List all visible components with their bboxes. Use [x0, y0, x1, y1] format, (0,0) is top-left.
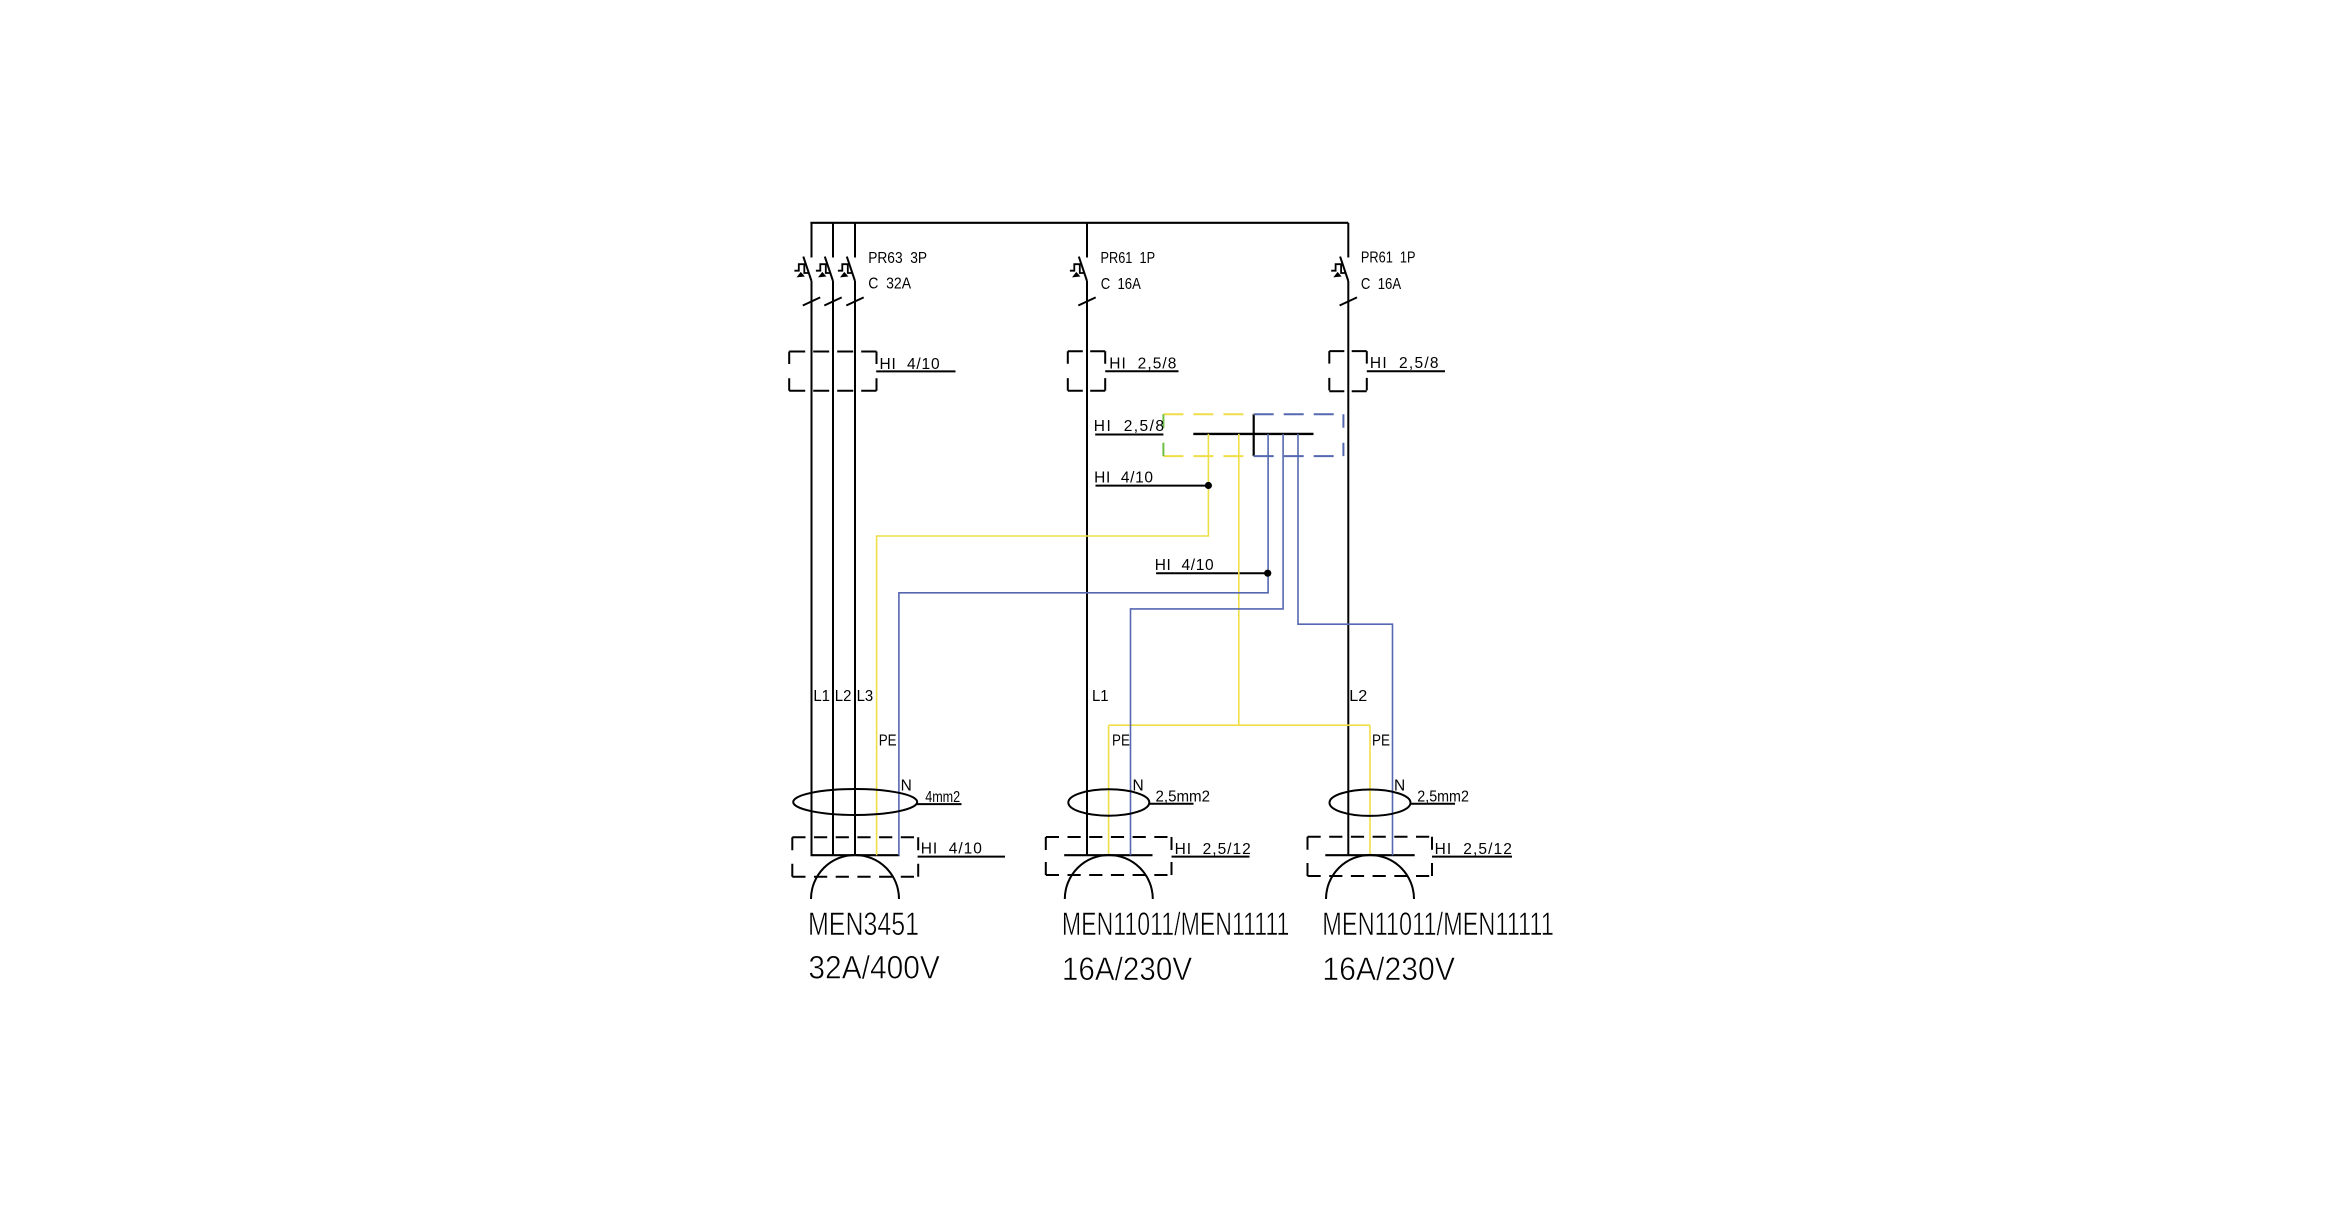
svg-text:HI 4/10: HI 4/10: [921, 841, 983, 858]
svg-text:HI 2,5/12: HI 2,5/12: [1435, 841, 1512, 858]
svg-text:2,5mm2: 2,5mm2: [1417, 789, 1469, 806]
svg-text:HI 2,5/8: HI 2,5/8: [1094, 418, 1164, 435]
svg-text:4mm2: 4mm2: [925, 789, 960, 806]
svg-text:HI 4/10: HI 4/10: [1155, 557, 1214, 574]
svg-text:HI 2,5/8: HI 2,5/8: [1370, 355, 1439, 372]
svg-text:HI 4/10: HI 4/10: [880, 356, 940, 373]
svg-text:HI 2,5/8: HI 2,5/8: [1109, 355, 1176, 372]
svg-text:L2: L2: [835, 688, 852, 705]
svg-text:C 16A: C 16A: [1101, 276, 1142, 293]
svg-text:PE: PE: [1372, 733, 1390, 750]
svg-text:PR61 1P: PR61 1P: [1361, 250, 1416, 267]
svg-text:PR61 1P: PR61 1P: [1101, 250, 1156, 267]
svg-text:L1: L1: [1092, 688, 1109, 705]
svg-text:16A/230V: 16A/230V: [1062, 951, 1193, 987]
svg-text:L1: L1: [813, 688, 830, 705]
svg-text:HI 2,5/12: HI 2,5/12: [1175, 841, 1251, 858]
svg-text:PE: PE: [1112, 733, 1130, 750]
svg-text:L3: L3: [857, 688, 874, 705]
svg-text:N: N: [1394, 778, 1405, 795]
svg-text:C 16A: C 16A: [1361, 276, 1402, 293]
svg-text:32A/400V: 32A/400V: [808, 950, 940, 986]
svg-text:PR63 3P: PR63 3P: [868, 250, 927, 267]
svg-text:PE: PE: [879, 733, 897, 750]
svg-text:C 32A: C 32A: [868, 276, 911, 293]
svg-text:HI 4/10: HI 4/10: [1094, 469, 1153, 486]
svg-text:L2: L2: [1349, 688, 1367, 705]
svg-text:16A/230V: 16A/230V: [1322, 951, 1455, 987]
svg-text:2,5mm2: 2,5mm2: [1156, 789, 1211, 806]
svg-text:MEN11011/MEN11111: MEN11011/MEN11111: [1322, 906, 1554, 942]
svg-text:N: N: [1133, 778, 1144, 795]
svg-text:MEN3451: MEN3451: [808, 906, 919, 942]
svg-text:N: N: [901, 778, 912, 795]
svg-text:MEN11011/MEN11111: MEN11011/MEN11111: [1062, 906, 1290, 942]
